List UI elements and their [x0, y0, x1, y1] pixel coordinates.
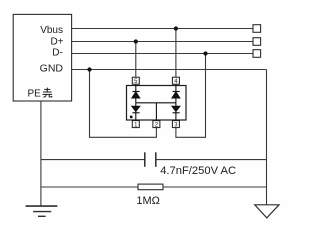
svg-text:PE: PE — [28, 89, 42, 100]
wire GND — [72, 69, 267, 71]
svg-text:1MΩ: 1MΩ — [136, 195, 160, 207]
wire resistor row right — [163, 186, 267, 188]
earth ground PE — [26, 206, 58, 216]
svg-text:D-: D- — [52, 48, 63, 59]
glyph shell (CJK 壳) drawn as strokes — [43, 88, 53, 98]
pin1 indicator dot — [130, 116, 133, 119]
diode D3 (right top, cathode up) — [172, 86, 180, 107]
svg-text:D+: D+ — [50, 36, 63, 47]
svg-text:Vbus: Vbus — [40, 25, 63, 36]
wire pin3 to D- — [176, 54, 206, 138]
wire pin5 to D+ — [135, 42, 137, 86]
wire resistor row left — [41, 186, 138, 188]
junction dot D+ pin5 — [134, 39, 138, 43]
wire pin2 to GND — [90, 70, 157, 138]
wire Vbus — [72, 28, 253, 30]
diode D4 (right bottom, cathode down) — [172, 106, 180, 120]
wire capacitor row right — [156, 159, 267, 161]
diode D1 (left top, cathode up) — [132, 86, 140, 107]
capacitor C1 plates — [144, 152, 146, 167]
wire pin4 to Vbus — [175, 29, 177, 86]
wire PE vertical — [40, 101, 42, 206]
terminal square D+ — [253, 38, 261, 46]
pin 2 square — [153, 121, 160, 128]
svg-text:4.7nF/250V AC: 4.7nF/250V AC — [160, 165, 236, 177]
diode D2 (left bottom, cathode down) — [132, 106, 140, 120]
junction dot D- — [203, 51, 207, 55]
wire D- — [72, 53, 253, 55]
terminal square D- — [253, 50, 261, 58]
pin 5 square — [132, 77, 139, 84]
wire capacitor row left — [41, 159, 145, 161]
junction dot GND — [87, 67, 91, 71]
mid rail to pin2 wire — [155, 103, 157, 121]
resistor R1 body — [138, 184, 163, 190]
terminal square Vbus — [253, 25, 261, 33]
junction dot Vbus pin4 — [174, 26, 178, 30]
pin 3 square — [172, 121, 179, 128]
TVS array U1 body — [127, 86, 187, 121]
wire right vertical (GND to chassis) — [266, 70, 268, 205]
chassis ground triangle — [255, 205, 279, 218]
wire D+ — [72, 41, 253, 43]
connector box J1 — [13, 14, 71, 101]
mid rail wire — [136, 102, 176, 104]
pin 4 square — [172, 77, 179, 84]
svg-text:GND: GND — [40, 63, 64, 75]
pin 1 square — [132, 121, 139, 128]
